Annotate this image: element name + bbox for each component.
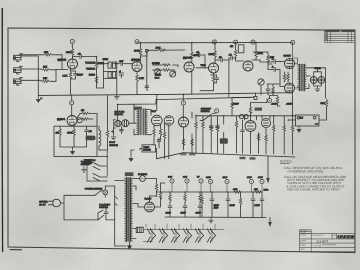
- resistor R34: [153, 128, 156, 136]
- print number under corner: [10, 249, 23, 251]
- resistor R39: [195, 121, 198, 129]
- wire plate node: [73, 56, 79, 58]
- ground input bus: [36, 96, 40, 102]
- wire term right: [270, 96, 281, 107]
- wire driver cathodes: [154, 123, 169, 159]
- wire heater bus: [143, 230, 224, 242]
- dark resistor block: [220, 138, 228, 144]
- resistor R56: [239, 197, 242, 205]
- potentiometer R8 250K: [108, 62, 111, 68]
- svg-text:450V: 450V: [214, 207, 219, 210]
- svg-text:68K: 68K: [43, 66, 48, 69]
- resistor R23: [267, 54, 270, 62]
- resistor R58 osc grid: [231, 101, 234, 109]
- node TP0a: [70, 39, 74, 43]
- capacitor C12: [266, 87, 270, 92]
- svg-text:DATE: DATE: [300, 244, 306, 247]
- wire to V4 grid: [196, 67, 209, 69]
- tube V6 6V6 lower: [285, 83, 295, 93]
- heater H4: [183, 228, 191, 242]
- plug P1: [49, 199, 61, 207]
- node TP2: [234, 40, 238, 44]
- cathode network V1: [71, 69, 76, 95]
- svg-text:25MF: 25MF: [77, 74, 83, 77]
- tube V13 rectifier: [145, 202, 155, 212]
- wire coupling to tone: [83, 57, 96, 61]
- capacitor C3 .1: [119, 73, 124, 78]
- resistor R42: [216, 124, 219, 132]
- switch fuse mark: [115, 196, 118, 206]
- tube V2A 7025: [132, 62, 142, 72]
- resistor R1 68K: [44, 54, 52, 57]
- connector heater: [136, 227, 143, 232]
- svg-text:.047: .047: [119, 60, 124, 63]
- svg-text:.02MF: .02MF: [286, 103, 293, 106]
- ground transformer: [127, 243, 132, 250]
- node term osc: [267, 98, 271, 102]
- wire trem to pots: [77, 114, 98, 127]
- svg-text:250K: 250K: [103, 58, 109, 61]
- jack J5 ext speaker: [318, 77, 325, 84]
- resistor R20 10K: [158, 49, 166, 52]
- tube V7 trem: [67, 116, 77, 126]
- svg-text:FOOT: FOOT: [109, 141, 116, 144]
- capacitor C13: [86, 126, 88, 128]
- wire gnd bus b+: [165, 216, 266, 219]
- wire PI outputs: [256, 60, 272, 64]
- wire v10 tail: [184, 112, 193, 153]
- ground speaker jacks: [314, 83, 322, 86]
- capacitor C15: [216, 124, 220, 129]
- resistor R43: [235, 120, 238, 128]
- svg-text:68K: 68K: [44, 51, 49, 54]
- screen resistors: [285, 72, 289, 82]
- wire box internals: [60, 133, 87, 148]
- wire trem signal line: [196, 115, 296, 121]
- wire to transformer: [106, 186, 126, 246]
- label smudge a: [240, 157, 246, 159]
- roach box: [142, 145, 156, 152]
- svg-text:56Ω: 56Ω: [321, 102, 326, 105]
- svg-text:7025: 7025: [201, 64, 207, 67]
- svg-text:1M: 1M: [56, 132, 59, 135]
- svg-text:BASS: BASS: [89, 74, 96, 77]
- resistor R15: [162, 69, 170, 72]
- svg-text:325V: 325V: [247, 176, 252, 179]
- svg-text:40MF: 40MF: [230, 204, 236, 207]
- resistor R28 NFB: [325, 99, 328, 107]
- resistor R4 100K plate: [71, 48, 74, 56]
- resistor R54 bus: [233, 191, 241, 194]
- wire trem drop: [71, 95, 73, 116]
- svg-text:6V6GT: 6V6GT: [284, 55, 292, 58]
- wire PI plates: [252, 52, 268, 60]
- wire b+ bus: [157, 191, 262, 193]
- tube V3 oscillator: [184, 62, 194, 72]
- wire osc feedback: [193, 55, 205, 68]
- resistor R24 screen: [283, 73, 286, 81]
- svg-text:TITLE: TITLE: [300, 234, 306, 237]
- capacitor C5: [145, 84, 149, 89]
- title block: [300, 230, 355, 252]
- svg-text:6SL7: 6SL7: [151, 110, 157, 113]
- wire V4 cathode: [200, 73, 217, 91]
- wire input bus: [21, 56, 41, 96]
- svg-text:TREM: TREM: [143, 146, 149, 149]
- node bus dot1: [71, 94, 72, 95]
- wire osc plate: [191, 59, 193, 94]
- svg-text:EXT: EXT: [299, 117, 304, 120]
- svg-text:.02MF: .02MF: [271, 103, 278, 106]
- capacitor C23: [251, 197, 255, 202]
- svg-text:APP: APP: [300, 248, 305, 251]
- svg-text:1M: 1M: [230, 45, 233, 48]
- resistor R12 100K: [139, 48, 142, 56]
- tube V10: [179, 117, 189, 127]
- resistor R38: [191, 138, 194, 146]
- arrow bias: [266, 178, 270, 184]
- wire grid join: [50, 69, 68, 81]
- intensity dark resistor: [86, 136, 96, 141]
- wire osc rc chain: [237, 116, 293, 155]
- resistor R29: [59, 126, 61, 128]
- resistor R49: [249, 106, 252, 114]
- wire V2 plate: [140, 56, 142, 62]
- svg-text:(½)7025: (½)7025: [58, 59, 67, 62]
- ground trem switch: [82, 167, 87, 173]
- wire tremolo feed: [148, 49, 185, 51]
- wire to power tubes: [268, 62, 285, 87]
- node loop box: [238, 45, 244, 53]
- bracket fs: [114, 120, 116, 129]
- wire NFB down: [319, 107, 327, 120]
- svg-text:ROACH: ROACH: [143, 149, 151, 152]
- label r38: [189, 153, 196, 156]
- node square S2: [254, 96, 257, 99]
- svg-text:20MF: 20MF: [166, 212, 172, 215]
- wire osc tube area: [245, 116, 271, 154]
- tube V4B PI: [243, 61, 253, 71]
- switch SW1 power: [95, 191, 101, 196]
- wire b+ term drops: [211, 184, 263, 192]
- resistor R17 plate choke: [191, 51, 194, 59]
- svg-text:TREBLE: TREBLE: [86, 68, 95, 71]
- potentiometer R59 trem depth: [155, 69, 161, 75]
- capacitor C17 line: [104, 210, 108, 215]
- svg-text:OLO: OLO: [155, 77, 160, 80]
- resistor R18 plate: [214, 42, 216, 50]
- svg-text:100K: 100K: [258, 52, 264, 55]
- capacitor C4 .047: [119, 62, 124, 66]
- capacitor C26: [157, 138, 161, 143]
- transformer T2 output: [298, 64, 307, 91]
- svg-text:⁝1-I-9VT: ⁝1-I-9VT: [317, 240, 329, 244]
- capacitor C9 .02: [229, 56, 234, 60]
- capacitor C22: [226, 197, 230, 202]
- potentiometer R9: [113, 62, 116, 68]
- svg-text:10K: 10K: [254, 188, 258, 191]
- label power trans: [125, 172, 134, 176]
- potentiometer R16 speed: [170, 71, 176, 77]
- resistor R61: [276, 96, 279, 104]
- wire tone stack frame: [97, 62, 117, 88]
- wire OT secondary: [306, 68, 325, 98]
- potentiometer R26 hum bal: [258, 79, 264, 85]
- node fs a: [297, 116, 300, 119]
- capacitor C24: [260, 197, 264, 202]
- svg-text:NOTES:: NOTES:: [280, 160, 292, 164]
- scan edge left: [1, 8, 4, 252]
- switch trem contacts: [87, 150, 107, 181]
- potentiometer R51: [244, 114, 248, 118]
- jack J1 input 1: [14, 54, 23, 62]
- svg-text:6.3V: 6.3V: [183, 176, 188, 179]
- wire V1 plate: [72, 56, 74, 59]
- mark fs dark: [315, 123, 318, 125]
- svg-text:6.3V: 6.3V: [168, 176, 173, 179]
- wire rect plate: [133, 191, 157, 207]
- ground b+ bus: [209, 217, 214, 223]
- wire trem sw to box: [97, 150, 107, 157]
- svg-text:OTHERWISE SPECIFIED.: OTHERWISE SPECIFIED.: [288, 170, 325, 174]
- svg-text:68K: 68K: [43, 77, 48, 80]
- wire primary top: [115, 180, 125, 182]
- svg-text:SWITCH: SWITCH: [201, 110, 210, 113]
- capacitor C20: [199, 194, 202, 202]
- heater H6: [207, 228, 215, 242]
- arrow b+ gnd: [268, 222, 272, 227]
- wire trem line riser: [292, 93, 294, 116]
- resistor R40: [202, 121, 205, 129]
- wire heater tops: [146, 224, 215, 230]
- revision table: [325, 30, 356, 43]
- ground fs jack flag: [113, 128, 115, 134]
- svg-text:100K: 100K: [66, 51, 72, 54]
- jack J4 speaker: [310, 77, 317, 84]
- svg-text:VOLUME: VOLUME: [85, 62, 95, 65]
- svg-text:SPEED: SPEED: [152, 62, 160, 65]
- node term v6: [181, 101, 185, 105]
- resistor R2 68K: [42, 69, 50, 72]
- tube V11 osc: [245, 121, 256, 132]
- svg-text:1M: 1M: [81, 109, 84, 112]
- resistor R14: [162, 64, 170, 67]
- node grid dot: [55, 69, 56, 70]
- svg-text:(½)6C4: (½)6C4: [57, 118, 66, 121]
- svg-text:20MF: 20MF: [196, 212, 202, 215]
- capacitor C6: [196, 53, 201, 57]
- resistor R45: [265, 134, 268, 142]
- resistor R25 screen: [287, 73, 290, 81]
- capacitor C19: [184, 194, 187, 202]
- resistor R30: [73, 126, 75, 128]
- resistor R32: [81, 118, 89, 121]
- wire bias drop: [267, 156, 269, 178]
- node square S1: [146, 50, 148, 52]
- wire R17 stub: [191, 43, 193, 51]
- potentiometer R11: [113, 72, 116, 78]
- node term standby: [215, 109, 219, 113]
- svg-text:117VAC: 117VAC: [39, 201, 48, 204]
- wire heater run: [133, 229, 136, 239]
- wire jack tops: [314, 68, 322, 77]
- wire coil ends: [98, 126, 100, 150]
- wire drops to gnd bus: [196, 116, 224, 153]
- svg-text:420V: 420V: [223, 176, 228, 179]
- svg-text:7-17-68: 7-17-68: [312, 244, 321, 247]
- wire secondary taps: [133, 179, 157, 191]
- svg-text:POWER SWITCH: POWER SWITCH: [85, 188, 103, 191]
- resistor R48: [291, 124, 294, 132]
- ground mid arrow: [129, 155, 133, 161]
- svg-text:2A FUSE: 2A FUSE: [138, 173, 148, 176]
- wire b+ gnd drop: [269, 218, 271, 223]
- ground trem arrow: [71, 148, 75, 154]
- capacitor C14: [209, 124, 213, 129]
- tube V5 6V6 upper: [285, 59, 295, 69]
- wire mid bottom bus: [157, 153, 184, 159]
- jack J3 input 3: [14, 78, 23, 86]
- resistor R44: [257, 133, 260, 141]
- svg-text:440V: 440V: [206, 176, 211, 179]
- notes block: [280, 160, 346, 192]
- node TP3: [251, 40, 255, 44]
- resistor R5 1.5K cathode: [69, 71, 72, 79]
- resistor R37: [182, 138, 185, 146]
- capacitor C18: [169, 194, 172, 202]
- tube V8 driver: [152, 115, 163, 126]
- node term trem: [70, 101, 74, 105]
- wire rect output: [154, 183, 165, 207]
- resistor R27: [272, 86, 275, 94]
- label smudge b: [250, 157, 256, 159]
- lamp pilot: [103, 190, 108, 195]
- wire into PI: [229, 57, 244, 97]
- heater H2: [159, 228, 167, 242]
- capacitor C25 fs: [120, 127, 124, 134]
- tube V12: [261, 118, 270, 127]
- node bus dot2: [183, 94, 184, 95]
- svg-text:1.5K: 1.5K: [63, 75, 68, 78]
- node TP0b: [135, 40, 139, 44]
- svg-text:SWITCH: SWITCH: [99, 206, 108, 209]
- label tube type dark: [255, 108, 263, 111]
- wire term drops: [172, 183, 201, 192]
- svg-text:(½)7025: (½)7025: [131, 59, 140, 62]
- terminal row b+: [208, 179, 212, 183]
- wire input line ch1: [21, 55, 62, 69]
- wire V2 cathode: [136, 72, 138, 95]
- heater H1: [147, 228, 155, 242]
- tube V4A 7025: [209, 63, 219, 73]
- resistor R53: [159, 192, 162, 200]
- svg-text:SCHEMATIC: SCHEMATIC: [312, 234, 324, 237]
- node fs b: [313, 116, 316, 119]
- capacitor C1 .02: [78, 55, 83, 59]
- svg-text:4.7K: 4.7K: [233, 188, 238, 191]
- svg-text:100K: 100K: [209, 53, 215, 56]
- label r37: [180, 153, 187, 156]
- wire V8 riser: [134, 95, 157, 111]
- svg-text:BIAS: BIAS: [264, 189, 269, 192]
- wire T3 hookup: [134, 110, 152, 135]
- svg-text:60 CY: 60 CY: [39, 204, 46, 207]
- svg-text:G-15: G-15: [300, 231, 306, 234]
- wire lower gnd bus: [183, 153, 295, 157]
- svg-text:20MF: 20MF: [255, 204, 261, 207]
- heater H3: [171, 228, 179, 242]
- capacitor C2 25MF: [74, 72, 78, 77]
- svg-text:IN JACK: IN JACK: [115, 113, 124, 116]
- capacitor C10 .1: [272, 60, 277, 64]
- resistor R6 slope: [95, 60, 98, 68]
- resistor R7: [95, 76, 98, 84]
- resistor R31 speed: [81, 112, 89, 115]
- tremolo box wiring: [54, 126, 97, 156]
- jack J2 input 2: [14, 66, 23, 74]
- svg-text:DWG: DWG: [300, 240, 306, 243]
- svg-text:100K: 100K: [134, 50, 140, 53]
- wire osc top loop: [251, 93, 268, 121]
- wire right bus drop: [182, 94, 184, 118]
- wire V2 plate node: [141, 50, 147, 57]
- svg-text:2.7K: 2.7K: [139, 77, 144, 80]
- resistor R47: [283, 124, 286, 132]
- wire V4 plate node: [215, 58, 219, 63]
- wire bus2 driver feed: [118, 97, 255, 104]
- resistor R57 divider: [201, 192, 203, 197]
- wire tone node: [96, 68, 98, 88]
- resistor R36: [163, 131, 166, 139]
- potentiometer R50: [239, 114, 243, 118]
- wire plug to switches: [61, 195, 99, 220]
- tube V9 driver: [164, 116, 174, 126]
- wire roach: [140, 149, 157, 159]
- wire coupling run: [224, 58, 235, 60]
- resistor R41: [210, 124, 213, 132]
- svg-text:NO: NO: [333, 234, 337, 237]
- svg-text:AND NO SIGNAL APPLIED TO INPUT: AND NO SIGNAL APPLIED TO INPUT.: [287, 188, 341, 192]
- svg-text:SWITCH: SWITCH: [109, 144, 118, 147]
- potentiometer R10: [108, 72, 111, 78]
- wire B+ rail preamp: [147, 49, 149, 51]
- wire down from stack: [147, 52, 148, 90]
- svg-text:NO PLUG: NO PLUG: [115, 110, 125, 113]
- resistor R55 bus: [254, 191, 262, 194]
- label T3: [134, 107, 142, 110]
- capacitor C21: [210, 197, 214, 202]
- wire mid ground bus: [38, 93, 292, 96]
- wire B+ rail upper: [137, 42, 293, 44]
- potentiometer R33: [77, 118, 82, 123]
- bias cluster: [261, 84, 279, 95]
- wire fs left: [288, 119, 296, 122]
- resistor R35: [159, 128, 162, 136]
- heater H5: [195, 228, 203, 242]
- switch SW2 polarity: [98, 210, 104, 220]
- svg-text:470K: 470K: [67, 132, 73, 135]
- ground fs: [297, 126, 301, 132]
- capacitor C16: [241, 128, 245, 133]
- wire R12 stub: [140, 43, 142, 48]
- wire OT primary: [293, 43, 298, 93]
- jack J6 footswitch: [115, 120, 121, 126]
- svg-text:5Y3GT: 5Y3GT: [145, 198, 153, 201]
- resistor R60 nfb trem: [107, 95, 109, 130]
- node TP4: [291, 40, 295, 44]
- terminal row heater: [170, 179, 174, 183]
- svg-text:300V: 300V: [258, 176, 263, 179]
